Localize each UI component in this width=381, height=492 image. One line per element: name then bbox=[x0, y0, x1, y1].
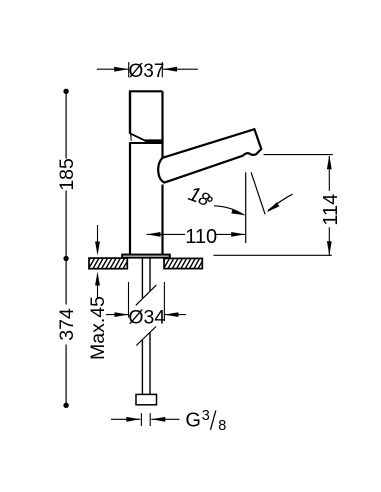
dimension 110 bbox=[147, 233, 246, 235]
faucet handle (top block) bbox=[130, 91, 163, 140]
svg-text:Max.45: Max.45 bbox=[87, 296, 109, 360]
dimension 185 / 374 line bbox=[65, 91, 67, 405]
dimension G 3/8 bbox=[111, 413, 180, 426]
18 degree slant line bbox=[251, 172, 265, 214]
outlet vertical reference line bbox=[245, 172, 247, 243]
shank pipes bbox=[142, 258, 150, 394]
break line upper bbox=[136, 285, 157, 305]
svg-text:Ø34: Ø34 bbox=[128, 307, 165, 329]
countertop right block bbox=[159, 257, 210, 270]
svg-text:Ø37: Ø37 bbox=[129, 61, 165, 82]
dimension 34 (hole) bbox=[106, 282, 186, 321]
svg-text:3: 3 bbox=[202, 408, 210, 424]
dimension 114 (right) bbox=[214, 155, 333, 256]
flange (base plate) bbox=[121, 254, 171, 259]
dimension 37 (top width) bbox=[97, 62, 198, 77]
angle arc bbox=[214, 206, 244, 215]
threaded nipple bbox=[136, 394, 157, 404]
svg-text:374: 374 bbox=[56, 308, 78, 341]
faucet body bbox=[129, 91, 164, 254]
svg-text:185: 185 bbox=[56, 158, 78, 191]
dimension Max.45 bbox=[97, 225, 99, 298]
svg-text:8: 8 bbox=[218, 418, 226, 434]
svg-text:110: 110 bbox=[185, 226, 217, 248]
break line lower bbox=[136, 327, 156, 346]
spout (lever) bbox=[158, 129, 261, 182]
leader arrow bbox=[268, 194, 293, 210]
svg-text:114: 114 bbox=[320, 194, 342, 226]
svg-text:G: G bbox=[185, 409, 201, 431]
countertop left block bbox=[84, 257, 135, 270]
